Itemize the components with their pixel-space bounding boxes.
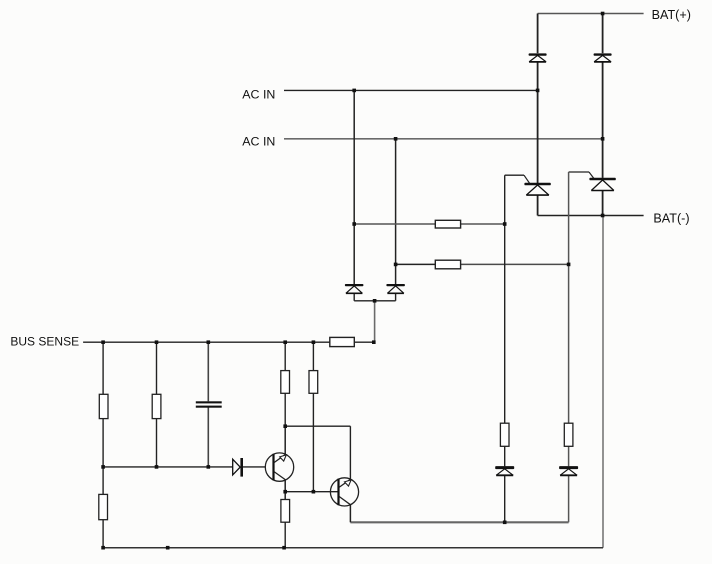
- svg-text:BUS SENSE: BUS SENSE: [10, 334, 79, 348]
- svg-text:BAT(-): BAT(-): [653, 211, 689, 225]
- svg-text:AC IN: AC IN: [242, 134, 275, 148]
- svg-text:AC IN: AC IN: [242, 87, 275, 101]
- svg-text:BAT(+): BAT(+): [652, 8, 691, 22]
